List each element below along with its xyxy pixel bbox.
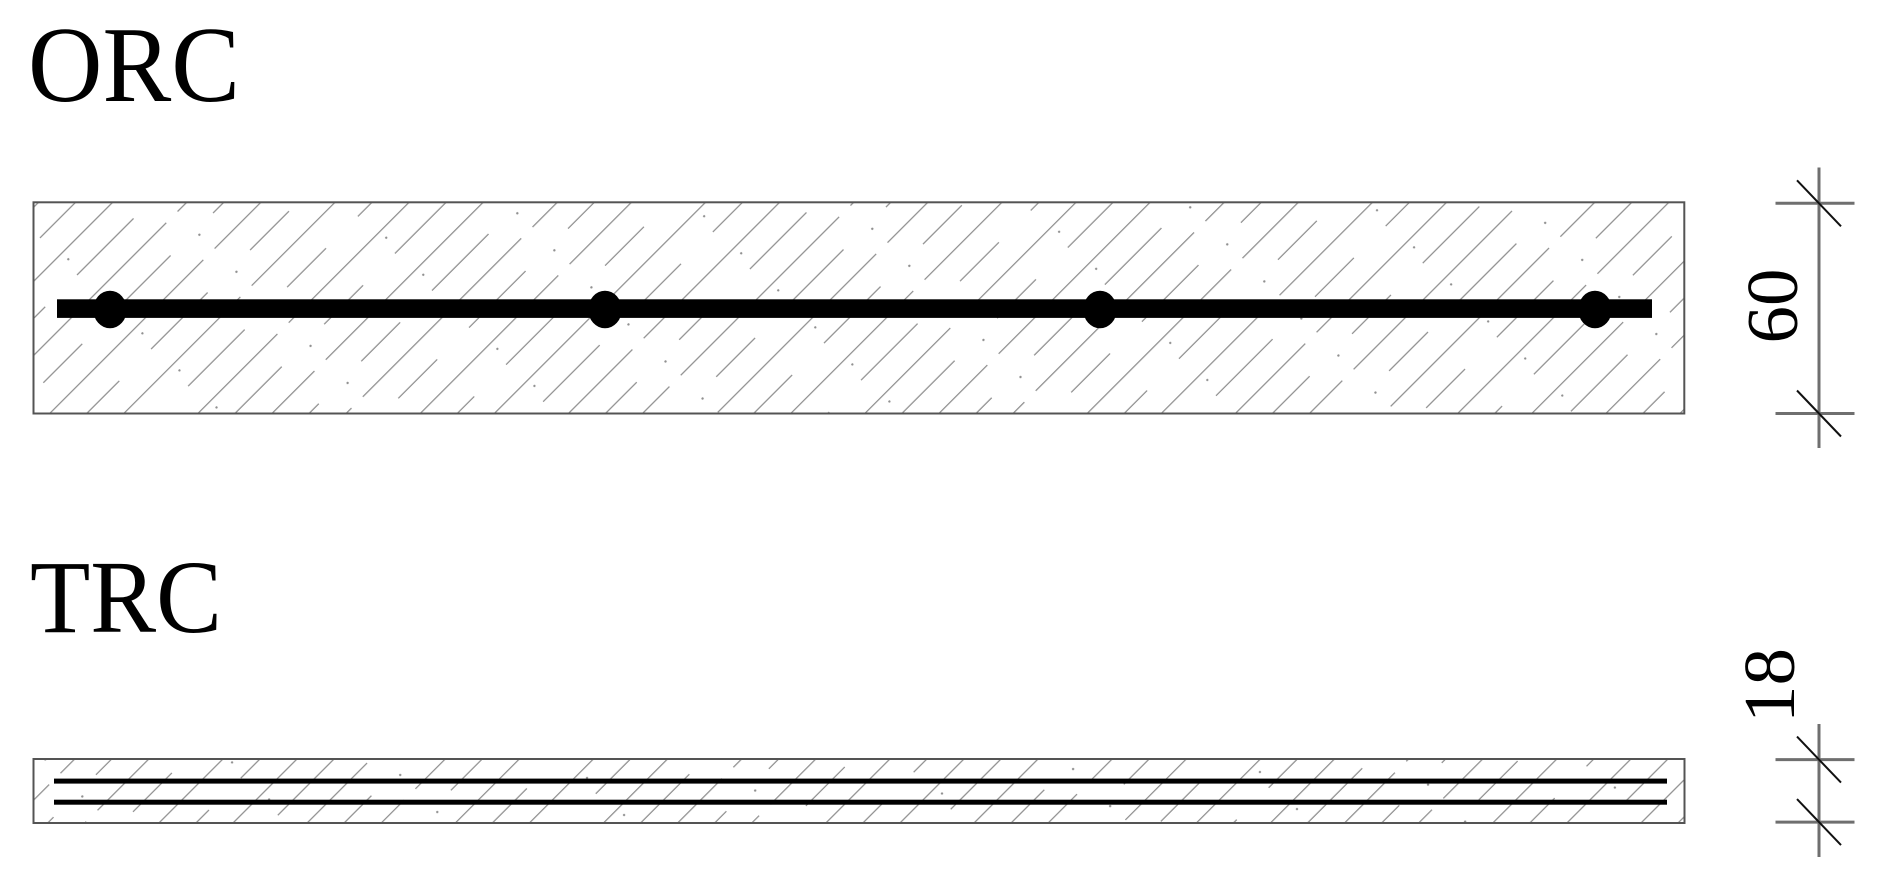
svg-text:18: 18 bbox=[1729, 648, 1810, 723]
rebar bar ORC bbox=[57, 299, 1652, 318]
svg-text:TRC: TRC bbox=[30, 541, 222, 655]
TRC slab (hatched concrete section) bbox=[34, 759, 1685, 823]
svg-text:ORC: ORC bbox=[28, 6, 240, 125]
dimension slash top TRC bbox=[1797, 737, 1841, 783]
textile layer 2 TRC bbox=[54, 800, 1667, 805]
rebar section dot 2 bbox=[588, 291, 622, 329]
rebar section dot 4 bbox=[1578, 291, 1612, 329]
dimension slash top ORC bbox=[1797, 180, 1841, 226]
dimension slash bottom TRC bbox=[1797, 799, 1841, 845]
dimension line TRC (18) bbox=[1776, 724, 1855, 857]
rebar section dot 3 bbox=[1083, 291, 1117, 329]
svg-text:60: 60 bbox=[1732, 269, 1813, 344]
rebar section dot 1 bbox=[93, 291, 127, 329]
ORC slab (hatched concrete section) bbox=[34, 202, 1685, 413]
textile layer 1 TRC bbox=[54, 779, 1667, 784]
dimension slash bottom ORC bbox=[1797, 391, 1841, 437]
dimension line ORC (60) bbox=[1776, 168, 1855, 449]
